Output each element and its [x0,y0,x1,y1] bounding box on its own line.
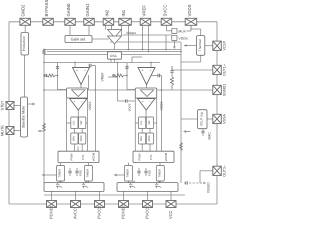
svg-text:SMC: SMC [208,132,212,140]
svg-text:VDDS: VDDS [128,103,132,111]
svg-text:VCLP: VCLP [222,40,226,50]
svg-text:VSSD: VSSD [207,183,211,193]
svg-text:VCOM: VCOM [92,152,96,161]
svg-text:PWM: PWM [70,153,74,161]
svg-text:PVCC2: PVCC2 [145,205,150,219]
svg-text:CTL: CTL [81,154,85,160]
svg-text:TIMER: TIMER [126,169,130,178]
svg-text:MOD: MOD [148,135,151,141]
svg-text:VDDS: VDDS [187,4,192,16]
svg-text:CTL: CTL [149,154,153,160]
svg-text:AVCC: AVCC [73,208,78,219]
svg-text:PGND2: PGND2 [121,204,126,219]
svg-text:VCC: VCC [168,210,173,219]
svg-text:GND2: GND2 [21,4,26,17]
svg-text:LVL: LVL [140,120,143,125]
svg-text:VDDS: VDDS [179,37,189,41]
svg-text:TIMER: TIMER [158,169,162,178]
svg-text:MUX: MUX [179,30,187,34]
svg-text:OSC: OSC [110,54,118,58]
svg-text:GAIN1: GAIN1 [85,3,90,17]
svg-text:SW: SW [80,120,83,125]
svg-text:BYPASS: BYPASS [44,0,49,17]
svg-text:LVL: LVL [72,120,75,125]
svg-text:VREF: VREF [142,5,147,17]
svg-text:DRV: DRV [140,136,143,142]
svg-text:TIMER: TIMER [86,169,90,178]
svg-text:TIMER: TIMER [58,169,62,178]
svg-text:SW: SW [148,120,151,125]
svg-text:Vslope: Vslope [126,31,136,35]
svg-text:Standby Mute: Standby Mute [21,106,25,128]
svg-text:PGND1: PGND1 [49,204,54,219]
svg-text:PWM: PWM [138,153,142,161]
svg-text:VSSA: VSSA [222,114,226,124]
svg-text:DRV: DRV [72,136,75,142]
svg-text:PVCC1: PVCC1 [97,205,102,219]
svg-text:GAIN0: GAIN0 [66,3,71,17]
svg-text:Gain sel.: Gain sel. [71,37,87,42]
svg-text:+: + [74,100,76,104]
svg-text:SVCC: SVCC [163,5,168,17]
svg-text:SGND1: SGND1 [222,84,226,97]
svg-text:Protection: Protection [22,36,26,51]
svg-text:MOD: MOD [80,135,83,141]
svg-text:MUTE: MUTE [1,125,5,136]
svg-text:VDDS: VDDS [88,102,92,111]
svg-text:VCOM: VCOM [164,152,168,161]
svg-text:VREF: VREF [101,72,105,81]
svg-text:IN2: IN2 [105,9,110,16]
svg-text:−: − [149,100,151,104]
svg-text:Thermal: Thermal [198,39,202,51]
svg-text:IN1: IN1 [121,9,126,16]
svg-text:+: + [142,100,144,104]
svg-text:OUT1−: OUT1− [222,165,226,177]
svg-text:PGD: PGD [148,170,152,176]
svg-text:VDDS: VDDS [160,102,164,111]
svg-text:PGD: PGD [79,170,83,176]
svg-text:OUT1+: OUT1+ [222,64,226,76]
svg-text:STBY: STBY [1,100,5,110]
svg-text:−: − [81,100,83,104]
svg-text:VCLP reg: VCLP reg [200,112,204,126]
